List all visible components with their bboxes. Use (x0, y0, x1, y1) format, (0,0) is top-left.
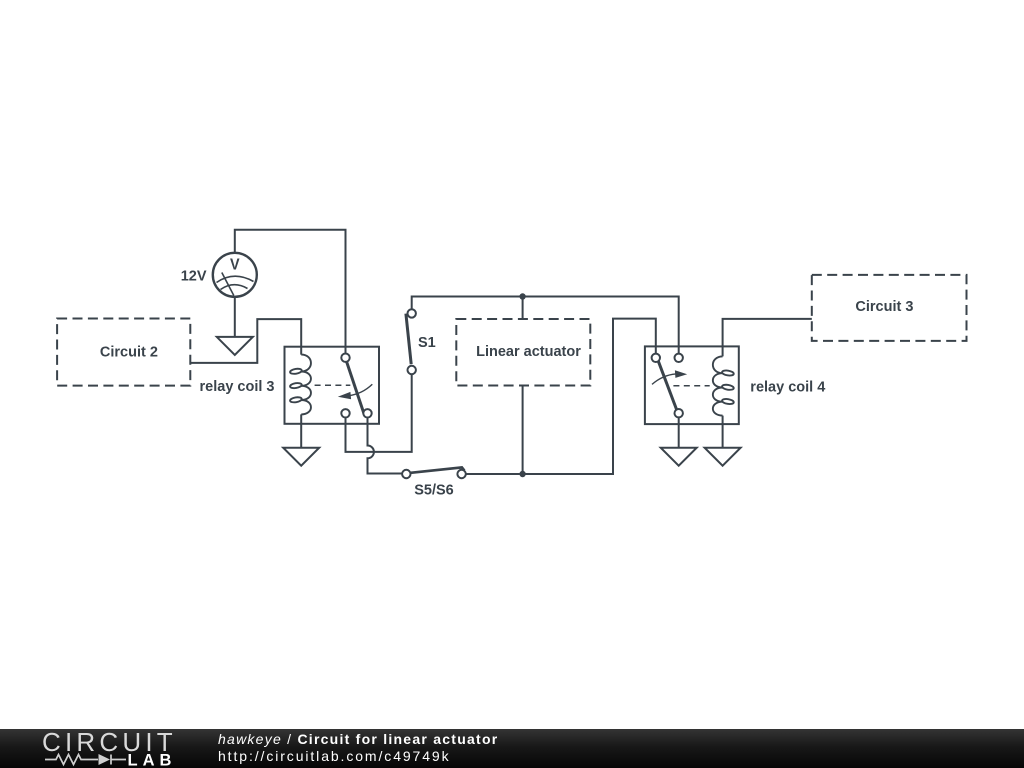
ground (below K3 coil) (283, 448, 319, 466)
relay K4 terminal pins (652, 354, 683, 418)
relay K3 switch lever (346, 361, 364, 413)
svg-text:Circuit 3: Circuit 3 (855, 299, 913, 315)
wire Circuit 2 to relay K3 coil top (190, 319, 301, 363)
ground (below V1) (217, 337, 253, 355)
switch S5/S6 (402, 467, 466, 478)
subcircuit box Circuit 3 (812, 275, 967, 341)
svg-text:Linear actuator: Linear actuator (476, 344, 581, 360)
wire K4 coil top to Circuit 3 (723, 319, 812, 357)
footer url (218, 748, 451, 764)
CircuitLab logo (0, 729, 200, 768)
relay K3 actuation arrow (338, 384, 373, 399)
svg-text:Circuit 2: Circuit 2 (100, 344, 158, 360)
footer bar (0, 729, 1024, 768)
voltage source V1 (213, 253, 257, 297)
relay K3 coupling dashed link (315, 384, 351, 386)
wire junction to Linear actuator top (522, 297, 524, 320)
svg-text:12V: 12V (181, 268, 207, 284)
relay K4 actuation arrow (652, 370, 687, 384)
node junction (top net to linear actuator) (519, 293, 525, 299)
wire K4 coil bottom to ground (722, 416, 724, 448)
wire K3 coil bottom to ground (300, 414, 302, 447)
wire S1 top net to relay K4 common (412, 297, 679, 354)
svg-text:relay coil 3: relay coil 3 (200, 379, 275, 395)
relay K4 coil (713, 356, 734, 415)
ground (below K4 switch) (661, 448, 697, 466)
relay K3 box (285, 347, 380, 424)
subcircuit box Circuit 2 (57, 319, 190, 386)
wire bottom net to relay K4 NO contact (466, 319, 656, 474)
wire K4 switch pole to ground (678, 417, 680, 447)
wire K3 NC contact to S1 bottom (346, 374, 412, 452)
svg-text:S5/S6: S5/S6 (414, 483, 454, 499)
relay K4 coupling dashed link (673, 385, 709, 387)
svg-text:relay coil 4: relay coil 4 (750, 379, 825, 395)
subcircuit box Linear actuator (456, 319, 590, 386)
relay K3 coil (290, 355, 311, 415)
wire V1 minus to ground (234, 297, 236, 337)
relay K4 box (645, 346, 739, 424)
wire top net: V1 plus to relay K3 common (235, 230, 346, 354)
svg-text:V: V (230, 256, 240, 273)
svg-text:S1: S1 (418, 335, 436, 351)
wire Linear actuator bottom to bottom net (522, 386, 524, 475)
svg-text:LAB: LAB (128, 752, 177, 768)
relay K3 terminal pins (341, 354, 371, 418)
node junction (bottom net) (519, 471, 525, 477)
switch S1 (406, 309, 416, 374)
ground (below K4 coil) (705, 448, 741, 466)
wire K3 NO contact to bottom net (with hop) (368, 418, 403, 474)
relay K4 switch lever (658, 360, 677, 411)
footer title (218, 731, 498, 747)
